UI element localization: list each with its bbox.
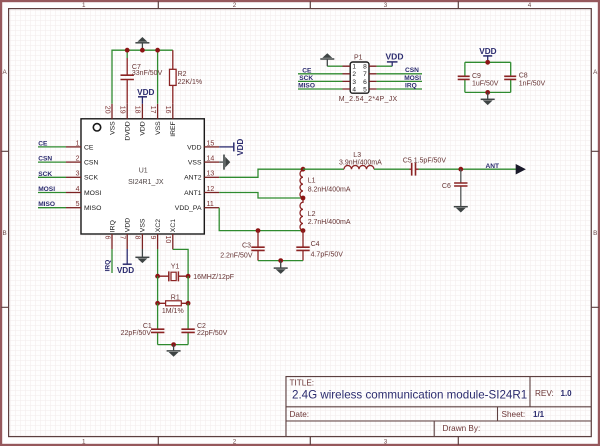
ground matching caps (274, 261, 288, 274)
capacitor C6 (442, 169, 468, 206)
svg-text:5: 5 (363, 86, 367, 93)
svg-text:19: 19 (119, 106, 126, 114)
svg-text:IRQ: IRQ (109, 220, 116, 232)
svg-text:Y1: Y1 (171, 263, 180, 270)
junction dot VDD rail (485, 60, 490, 65)
ground C9 C8 (481, 92, 495, 105)
resistor R1 (158, 295, 189, 316)
wire U1 pin 9 XC2 to Y1 left (157, 249, 159, 276)
junction dot Y1 right (186, 274, 191, 279)
svg-text:L2: L2 (308, 211, 316, 218)
svg-text:MISO: MISO (84, 205, 101, 212)
svg-text:C8: C8 (519, 72, 528, 79)
svg-text:Drawn By:: Drawn By: (443, 424, 481, 433)
U1 right pin stubs 11-15 (204, 147, 219, 208)
svg-text:3: 3 (384, 2, 388, 9)
inductor L1 (300, 169, 351, 198)
ground top rail (135, 37, 149, 50)
wire C3 bottom to C4 bottom (258, 260, 303, 262)
svg-text:VSS: VSS (109, 121, 116, 135)
P1 pin stubs (343, 66, 377, 89)
svg-text:ANT1: ANT1 (184, 190, 202, 197)
U1 bottom pin names (109, 218, 177, 232)
wire SCK to U1 pin 3 (38, 176, 66, 178)
svg-text:7: 7 (363, 71, 367, 78)
svg-text:CE: CE (38, 140, 48, 147)
junction dot Y1 left (155, 274, 160, 279)
connector P1 body (339, 55, 398, 103)
capacitor C7 (121, 58, 163, 104)
U1 top pin names (109, 121, 177, 141)
svg-text:VDD: VDD (137, 88, 154, 97)
junction dot R1 right (186, 301, 191, 306)
svg-text:VDD: VDD (479, 47, 496, 56)
svg-text:MOSI: MOSI (84, 190, 101, 197)
U1 left pin numbers (76, 140, 80, 208)
svg-text:VSS: VSS (155, 121, 162, 135)
svg-text:MISO: MISO (38, 201, 55, 208)
svg-text:22K/1%: 22K/1% (178, 79, 203, 86)
inductor L2 (300, 198, 351, 231)
svg-text:4.7pF/50V: 4.7pF/50V (311, 251, 344, 258)
svg-text:XC2: XC2 (155, 219, 162, 232)
svg-text:3: 3 (384, 438, 388, 445)
wire L1 top to L3 (303, 168, 344, 170)
wire Y1 right to R1 right (187, 276, 189, 303)
wire C9 C8 bottom (465, 91, 511, 93)
svg-text:10: 10 (164, 236, 171, 244)
wire C5 to ANT (419, 168, 517, 170)
ground P1 (320, 53, 334, 66)
svg-text:22pF/50V: 22pF/50V (121, 330, 152, 337)
svg-text:CSN: CSN (38, 156, 52, 163)
svg-text:IREF: IREF (170, 121, 177, 136)
power VDD at C9 C8 (479, 47, 496, 62)
svg-text:P1: P1 (354, 55, 363, 62)
svg-text:6: 6 (363, 79, 367, 86)
U1 bottom pin numbers (103, 236, 171, 244)
wire ANT2 U1 pin 13 to L1 top (219, 169, 303, 177)
svg-text:MOSI: MOSI (404, 75, 421, 82)
wire P1 pin 1 to gnd (327, 65, 342, 67)
svg-text:VDD_PA: VDD_PA (175, 205, 202, 212)
svg-text:7: 7 (119, 236, 126, 240)
ground C6 (454, 207, 468, 213)
capacitor C8 (504, 62, 545, 92)
svg-text:2: 2 (76, 156, 80, 163)
wire VDD rail C9 C8 top (465, 61, 511, 63)
junction dot L2 bottom (301, 228, 306, 233)
svg-text:2: 2 (352, 71, 356, 78)
svg-text:8.2nH/400mA: 8.2nH/400mA (308, 187, 351, 194)
svg-text:M_2.54_2*4P_JX: M_2.54_2*4P_JX (339, 96, 398, 103)
node ANT arrow (486, 163, 525, 174)
svg-text:IRQ: IRQ (405, 82, 417, 89)
power VDD at P1 (386, 52, 404, 67)
svg-text:VDD: VDD (117, 266, 134, 275)
wire VSS top rail over U1 (112, 50, 173, 104)
svg-text:VSS: VSS (188, 160, 202, 167)
svg-text:1/1: 1/1 (533, 410, 545, 419)
svg-text:SCK: SCK (84, 175, 98, 182)
svg-text:2: 2 (233, 2, 237, 9)
svg-text:4: 4 (528, 2, 532, 9)
svg-text:R1: R1 (171, 295, 180, 302)
svg-text:VDD: VDD (187, 144, 201, 151)
svg-text:C3: C3 (242, 242, 251, 249)
wire IRQ from U1 pin 6 (111, 249, 113, 273)
power VDD at U1 pin 18 (137, 88, 154, 104)
wire MOSI to P1 pin 6 (377, 80, 422, 82)
svg-text:3.9nH/400mA: 3.9nH/400mA (339, 160, 382, 167)
svg-text:11: 11 (207, 201, 214, 208)
resistor R2 (170, 50, 203, 104)
svg-text:C5 1.5pF/50V: C5 1.5pF/50V (403, 158, 447, 165)
svg-text:20: 20 (103, 106, 110, 114)
svg-text:18: 18 (134, 106, 141, 114)
junction dot crystal gnd (171, 342, 176, 347)
svg-text:B: B (2, 230, 6, 237)
svg-text:IRQ: IRQ (104, 260, 111, 272)
svg-text:1: 1 (352, 64, 356, 71)
svg-text:33nF/50V: 33nF/50V (132, 70, 163, 77)
svg-text:8: 8 (134, 236, 141, 240)
wire Y1 left to R1 left (157, 276, 159, 303)
wire MISO to U1 pin 5 (38, 207, 66, 209)
svg-text:VDD: VDD (125, 218, 132, 232)
svg-text:CE: CE (302, 67, 312, 74)
U1 left pin stubs 1-5 (66, 147, 81, 208)
wire CE to U1 pin 1 (38, 146, 66, 148)
crystal Y1 (158, 263, 234, 281)
svg-text:VDD: VDD (236, 139, 245, 156)
svg-text:1.0: 1.0 (561, 389, 573, 398)
svg-text:17: 17 (149, 106, 156, 114)
svg-text:CE: CE (84, 144, 94, 151)
power VDD at U1 pin 7 (117, 249, 134, 275)
svg-text:L3: L3 (353, 152, 361, 159)
wire C1 bottom to C2 bottom (158, 344, 189, 346)
U1 top pin stubs 16-20 (112, 104, 173, 119)
wire MOSI to U1 pin 4 (38, 192, 66, 194)
svg-text:ANT: ANT (486, 163, 500, 170)
svg-text:REV:: REV: (535, 389, 554, 398)
svg-text:6: 6 (103, 236, 110, 240)
svg-text:22pF/50V: 22pF/50V (197, 330, 228, 337)
junction dot L1 top (301, 167, 306, 172)
capacitor C5 (403, 158, 447, 176)
junction dot R1 left (155, 301, 160, 306)
svg-text:SCK: SCK (38, 171, 52, 178)
svg-text:2.7nH/400mA: 2.7nH/400mA (308, 219, 351, 226)
svg-text:R2: R2 (178, 71, 187, 78)
svg-text:C4: C4 (311, 241, 320, 248)
svg-text:1M/1%: 1M/1% (162, 308, 184, 315)
capacitor C1 (121, 303, 165, 344)
junction dot C6 tap (458, 167, 463, 172)
P1 pin numbers (352, 64, 367, 94)
svg-text:13: 13 (207, 171, 215, 178)
svg-text:1: 1 (76, 140, 80, 147)
svg-text:VDD: VDD (386, 52, 404, 62)
inductor L3 (339, 152, 382, 169)
svg-text:3: 3 (76, 171, 80, 178)
svg-text:5: 5 (76, 201, 80, 208)
svg-text:2.4G wireless communication mo: 2.4G wireless communication module-SI24R… (292, 388, 527, 401)
svg-text:Sheet:: Sheet: (502, 410, 526, 419)
wire CSN to P1 pin 7 (377, 73, 422, 75)
svg-text:ANT2: ANT2 (184, 175, 202, 182)
svg-text:SCK: SCK (299, 75, 313, 82)
svg-text:3: 3 (352, 79, 356, 86)
svg-text:TITLE:: TITLE: (290, 378, 315, 387)
svg-text:14: 14 (207, 156, 215, 163)
junction dot L1 L2 (301, 196, 306, 201)
svg-text:B: B (593, 230, 597, 237)
wire U1 pin 10 XC1 to Y1 right (173, 249, 188, 276)
svg-text:MOSI: MOSI (38, 186, 55, 193)
svg-text:8: 8 (363, 64, 367, 71)
svg-text:16: 16 (164, 106, 171, 114)
U1 right pin numbers (207, 140, 215, 208)
svg-text:1uF/50V: 1uF/50V (472, 80, 499, 87)
wire IRQ to P1 pin 5 (377, 88, 422, 90)
svg-text:1: 1 (82, 2, 86, 9)
svg-text:16MHZ/12pF: 16MHZ/12pF (193, 274, 234, 281)
capacitor C9 (458, 62, 499, 92)
U1 right pin names (175, 144, 202, 212)
U1 left pin names (84, 144, 101, 212)
svg-text:CSN: CSN (405, 67, 419, 74)
svg-text:CSN: CSN (84, 160, 98, 167)
svg-text:XC1: XC1 (170, 219, 177, 232)
capacitor C2 (181, 303, 227, 344)
svg-text:L1: L1 (308, 178, 316, 185)
wire CE to P1 pin 2 (298, 73, 343, 75)
U1 bottom pin stubs 6-10 (112, 234, 173, 249)
svg-text:9: 9 (149, 236, 156, 240)
junction dot C3 top (256, 228, 261, 233)
wire MISO to P1 pin 4 (298, 88, 343, 90)
power VDD at U1 pin 15 (219, 139, 245, 156)
svg-text:2: 2 (233, 438, 237, 445)
junction dot pin19 rail (125, 48, 130, 53)
junction dot pin17 rail (155, 48, 160, 53)
svg-text:Date:: Date: (290, 410, 310, 419)
svg-text:C9: C9 (472, 73, 481, 80)
svg-text:1: 1 (82, 438, 86, 445)
svg-text:VDD: VDD (140, 121, 147, 135)
wire VDD_PA U1 pin 11 to L2 bottom (219, 208, 303, 231)
junction dot gnd C9 C8 (485, 90, 490, 95)
svg-text:4: 4 (352, 86, 356, 93)
svg-text:SI24R1_JX: SI24R1_JX (128, 179, 164, 186)
capacitor C4 (296, 231, 343, 261)
wire ANT1 U1 pin 12 to L1/L2 node (219, 193, 303, 199)
ground crystal caps (167, 345, 181, 357)
svg-text:MISO: MISO (298, 83, 315, 90)
svg-text:15: 15 (207, 140, 215, 147)
wire SCK to P1 pin 3 (298, 80, 343, 82)
svg-text:C6: C6 (442, 183, 451, 190)
ground at U1 pin 14 (219, 155, 230, 170)
svg-text:4: 4 (76, 186, 80, 193)
ground at U1 pin 8 (135, 249, 149, 263)
op-amp U1 SI24R1_JX body (81, 119, 204, 234)
svg-text:12: 12 (207, 186, 215, 193)
wire CSN to U1 pin 2 (38, 161, 66, 163)
wire P1 pin 8 to VDD (377, 65, 393, 67)
junction dot match gnd (278, 258, 283, 263)
wire L3 to C5 (374, 168, 410, 170)
svg-text:U1: U1 (139, 168, 148, 175)
svg-text:1nF/50V: 1nF/50V (519, 80, 546, 87)
svg-text:VSS: VSS (140, 218, 147, 232)
U1 top pin numbers (103, 106, 171, 114)
capacitor C3 (220, 231, 265, 261)
junction dot gnd rail (140, 48, 145, 53)
svg-text:DVDD: DVDD (125, 121, 132, 140)
svg-text:2.2nF/50V: 2.2nF/50V (220, 253, 253, 260)
